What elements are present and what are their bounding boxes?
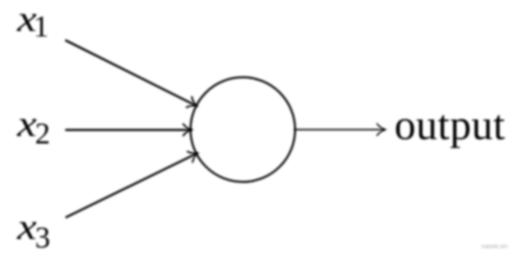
wire x3 to neuron bbox=[66, 154, 195, 217]
svg-text:an angl-snwhse_snsh-rc: an angl-snwhse_snsh-rc bbox=[482, 244, 509, 250]
arrowhead x3 bbox=[188, 148, 200, 162]
svg-text:3: 3 bbox=[35, 220, 50, 254]
svg-text:1: 1 bbox=[34, 10, 49, 44]
wire x1 to neuron bbox=[66, 41, 195, 105]
svg-text:output: output bbox=[394, 102, 505, 149]
neuron circle bbox=[191, 77, 296, 182]
arrowhead output bbox=[377, 124, 385, 136]
arrowhead x1 bbox=[187, 97, 199, 111]
arrowhead x2 bbox=[183, 124, 191, 136]
svg-text:2: 2 bbox=[35, 117, 50, 151]
output wire bbox=[295, 129, 383, 131]
wire x2 to neuron bbox=[66, 129, 189, 131]
